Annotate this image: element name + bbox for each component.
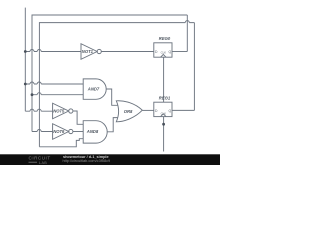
wire NOT6 output to AND8 input2: [73, 131, 83, 133]
inverter NOT6: [53, 124, 69, 140]
junction dot net A / NOT1 input: [24, 50, 27, 53]
svg-text:NOT1: NOT1: [82, 49, 94, 54]
flip-flop REG1: [154, 102, 172, 116]
svg-text:NOT6: NOT6: [53, 129, 65, 134]
wire hop over B at y=51.5: [30, 50, 34, 52]
wire NOT6 input row y=131.5: [32, 131, 53, 133]
wire hop over C at y=131.5: [37, 130, 41, 132]
svg-text:CLK: CLK: [161, 51, 167, 55]
wire hop over C at y=94.7: [37, 93, 41, 95]
flip-flop REG0: [154, 43, 172, 57]
svg-text:CLK: CLK: [161, 111, 167, 115]
wire NOT1 output to REG0 D: [101, 51, 154, 53]
wire bottom route net C to AND8 input3: [39, 139, 83, 147]
svg-text:Q: Q: [169, 50, 172, 54]
svg-text:REG1: REG1: [159, 96, 171, 101]
junction dot net A / AND7 input1: [24, 83, 27, 86]
wire hop over B at y=111.2: [30, 109, 34, 111]
wire NOT1 input row y=51.5: [25, 51, 81, 53]
junction dot net B / AND7 input2: [31, 93, 34, 96]
svg-text:http://circuitlab.com/c3f58c9: http://circuitlab.com/c3f58c9: [63, 159, 111, 163]
wire AND7 input1 row y=84: [25, 83, 83, 85]
svg-text:REG0: REG0: [159, 36, 171, 41]
flip-flop REG0 clock wedge: [161, 54, 166, 57]
logo tick marks: [29, 161, 38, 164]
wire REG1 Q output: [172, 109, 195, 111]
wire NOT5 input row y=111.2: [25, 110, 52, 112]
and-gate AND7: [83, 79, 106, 99]
wire net B top corner + outer top feedback wire: [32, 15, 187, 132]
wire OR8 output to REG1 D: [142, 109, 154, 111]
wire AND8 output to OR8 input2: [107, 118, 119, 132]
or-gate OR8: [116, 101, 142, 122]
svg-text:AND7: AND7: [87, 87, 100, 92]
svg-text:OR8: OR8: [124, 109, 133, 114]
wire REG0 Q output: [172, 51, 187, 53]
svg-text:LAB: LAB: [39, 161, 47, 165]
node A vertical wire (left input net): [24, 8, 26, 112]
wire hop over C at y=51.5: [37, 50, 41, 52]
wire hop over C at y=111.2: [37, 109, 41, 111]
wire REG0 Q right vertical: [186, 15, 188, 52]
wire AND7 output to OR8 input1: [106, 89, 119, 105]
wire REG1 Q right vertical: [193, 23, 195, 111]
wire hop inner top over x=187.3: [185, 21, 189, 23]
wire net C inner top feedback wire: [39, 23, 194, 147]
svg-text:NOT5: NOT5: [53, 109, 65, 114]
junction dot clock / REG1 clk: [162, 123, 165, 126]
inverter NOT5: [53, 103, 69, 119]
svg-text:Q: Q: [169, 109, 172, 113]
wire hop over B at y=84: [30, 82, 34, 84]
flip-flop REG1 clock wedge: [161, 114, 166, 117]
and-gate AND8: [83, 121, 107, 143]
wire hop over C at y=84: [37, 82, 41, 84]
inverter NOT1: [81, 44, 97, 60]
svg-text:CIRCUIT: CIRCUIT: [29, 156, 51, 161]
wire AND7 input2 row y=94.7: [32, 94, 83, 96]
wire NOT5 output to AND8 input1: [73, 111, 83, 124]
svg-text:AND8: AND8: [86, 129, 99, 134]
wire clock net vertical: [163, 57, 165, 151]
footer bar: [0, 154, 220, 165]
